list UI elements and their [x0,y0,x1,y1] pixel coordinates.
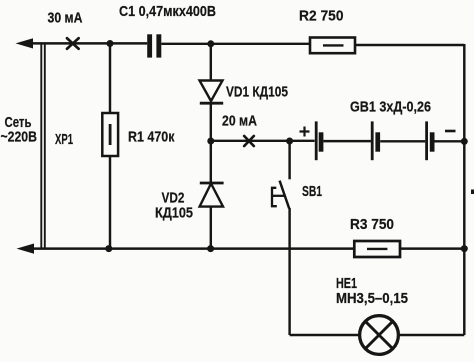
svg-text:МН3,5–0,15: МН3,5–0,15 [336,291,408,307]
svg-text:VD2: VD2 [162,191,185,207]
svg-text:GB1 3хД-0,26: GB1 3хД-0,26 [350,100,431,116]
svg-text:КД105: КД105 [155,206,193,222]
svg-text:R1 470к: R1 470к [128,129,175,145]
svg-text:20 мА: 20 мА [222,114,257,130]
svg-text:VD1 КД105: VD1 КД105 [226,84,288,100]
svg-text:ХР1: ХР1 [55,132,73,148]
svg-text:SB1: SB1 [302,184,322,200]
svg-text:R3 750: R3 750 [350,217,394,233]
svg-text:30 мА: 30 мА [48,11,83,27]
svg-text:R2 750: R2 750 [299,9,344,25]
svg-text:НЕ1: НЕ1 [336,276,357,292]
svg-text:С1 0,47мкх400В: С1 0,47мкх400В [119,4,216,20]
svg-text:~220В: ~220В [1,130,38,146]
